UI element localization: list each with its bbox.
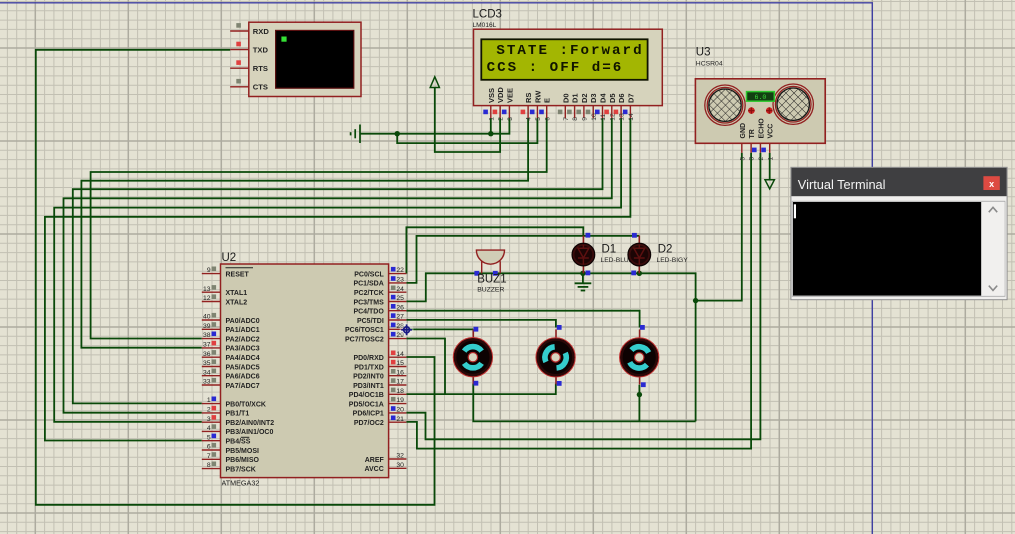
svg-text:STATE :Forward: STATE :Forward (496, 43, 643, 59)
wire net U2 PC6 to motor M1 + (406, 328, 473, 330)
svg-text:7: 7 (563, 117, 570, 121)
svg-text:D0: D0 (561, 93, 570, 103)
svg-text:PB7/SCK: PB7/SCK (226, 466, 256, 473)
svg-text:36: 36 (203, 351, 211, 358)
svg-text:Virtual Terminal: Virtual Terminal (798, 177, 886, 192)
svg-text:D7: D7 (626, 93, 635, 103)
svg-text:PD2/INT0: PD2/INT0 (353, 374, 384, 381)
U3 pin stubs (742, 143, 770, 153)
svg-text:30: 30 (396, 462, 404, 469)
svg-text:2: 2 (498, 117, 505, 121)
svg-text:33: 33 (203, 379, 211, 386)
junction dot motor3 bottom (637, 392, 642, 397)
svg-text:9: 9 (582, 117, 589, 121)
svg-text:D5: D5 (608, 93, 617, 103)
svg-text:6.0: 6.0 (754, 94, 766, 101)
svg-text:16: 16 (396, 369, 404, 376)
svg-text:8: 8 (572, 117, 579, 121)
wire net LCD-D7 to U2 PB4 (45, 118, 631, 441)
svg-text:19: 19 (396, 397, 404, 404)
svg-text:22: 22 (396, 267, 404, 274)
wire branch GND net to LCD RW pin5 (397, 118, 537, 143)
svg-text:1: 1 (767, 157, 774, 161)
U2 pin name labels (226, 271, 385, 473)
svg-text:13: 13 (203, 286, 211, 293)
svg-text:6: 6 (207, 444, 211, 451)
wire net LCD-D6 to U2 PB2 (54, 118, 621, 422)
svg-text:25: 25 (396, 295, 404, 302)
svg-text:39: 39 (203, 323, 211, 330)
svg-text:12: 12 (609, 113, 616, 121)
svg-text:PA1/ADC1: PA1/ADC1 (226, 327, 260, 334)
svg-text:3: 3 (207, 416, 211, 423)
svg-text:AVCC: AVCC (364, 466, 383, 473)
U2 pin numbers (203, 267, 404, 469)
U3 pin name labels (740, 118, 775, 139)
svg-text:RXD: RXD (253, 27, 270, 36)
svg-text:CTS: CTS (253, 83, 268, 92)
svg-text:VSS: VSS (487, 88, 496, 103)
U2 PB4/SS overline (241, 436, 250, 438)
svg-text:PB2/AIN0/INT2: PB2/AIN0/INT2 (226, 420, 275, 427)
wire net U2 PC7 / PD4 to motor M2 - (406, 339, 555, 395)
ground symbol near LCD (rotated) (351, 125, 360, 144)
svg-text:3: 3 (749, 157, 756, 161)
svg-text:PB4/SS: PB4/SS (226, 439, 251, 446)
svg-text:PB1/T1: PB1/T1 (226, 411, 250, 418)
wire net GND rail : U2 PC3, LED cathodes, buzzer, sensor GND (406, 273, 695, 421)
svg-text:5: 5 (207, 434, 211, 441)
U3 indicator LED at 769.3 (766, 107, 773, 114)
svg-text:17: 17 (396, 379, 404, 386)
svg-text:13: 13 (619, 113, 626, 121)
LED D1 (572, 236, 634, 274)
U2 left pin stubs (202, 274, 221, 469)
svg-text:14: 14 (396, 351, 404, 358)
VT scrollbar (981, 202, 1004, 296)
svg-text:D1: D1 (602, 244, 617, 256)
svg-text:20: 20 (396, 407, 404, 414)
svg-text:PA2/ADC2: PA2/ADC2 (226, 336, 260, 343)
svg-text:x: x (989, 179, 994, 189)
svg-text:14: 14 (628, 113, 635, 121)
svg-text:TR: TR (749, 129, 756, 138)
svg-text:PA5/ADC5: PA5/ADC5 (226, 364, 260, 371)
junction dot gnd rail corner (693, 298, 698, 303)
svg-text:15: 15 (396, 360, 404, 367)
svg-text:HCSR04: HCSR04 (696, 61, 723, 68)
wire net U2 PD6 to U3 ECHO (406, 153, 760, 440)
svg-text:4: 4 (526, 117, 533, 121)
svg-text:U2: U2 (222, 252, 237, 264)
svg-text:1: 1 (207, 397, 211, 404)
svg-text:PB6/MISO: PB6/MISO (226, 457, 260, 464)
ground symbol below LED D1 (575, 283, 592, 290)
svg-text:35: 35 (203, 360, 211, 367)
motor M3 (620, 329, 659, 384)
svg-text:PC2/TCK: PC2/TCK (354, 290, 384, 297)
svg-text:VDD: VDD (496, 87, 505, 103)
U3 pin state squares (752, 148, 757, 153)
svg-text:RW: RW (533, 90, 542, 103)
svg-text:BUZZER: BUZZER (477, 287, 504, 294)
wire branch LCD VSS pin1 to GND net (490, 118, 492, 134)
svg-text:PA3/ADC3: PA3/ADC3 (226, 346, 260, 353)
U3 transducer at 793 (773, 84, 813, 124)
svg-text:ECHO: ECHO (758, 118, 765, 139)
junction dot gnd-lcd B (488, 131, 493, 136)
wire branch U2 PD4 (406, 393, 445, 395)
svg-text:PC6/TOSC1: PC6/TOSC1 (345, 327, 384, 334)
junction dot D2 cathode (637, 271, 642, 276)
motor pin state squares (474, 327, 479, 332)
svg-text:GND: GND (740, 123, 747, 139)
virtual terminal component VT (RXD/TXD/RTS/CTS) (230, 22, 361, 96)
svg-text:PC3/TMS: PC3/TMS (353, 299, 384, 306)
svg-text:PA0/ADC0: PA0/ADC0 (226, 318, 260, 325)
U3 transducer at 725 (705, 85, 745, 125)
motor M2 (536, 329, 575, 384)
VT terminal screen (792, 201, 1005, 296)
U3 distance display 6.0 (747, 92, 775, 102)
svg-text:26: 26 (396, 304, 404, 311)
svg-text:RESET: RESET (226, 271, 250, 278)
U2 RESET overline (226, 267, 254, 269)
svg-text:PD0/RXD: PD0/RXD (353, 355, 383, 362)
power symbol (down arrow) at U3 VCC (765, 180, 774, 189)
svg-text:11: 11 (600, 114, 607, 121)
svg-text:PC1/SDA: PC1/SDA (353, 281, 383, 288)
svg-text:27: 27 (396, 314, 404, 321)
svg-text:PC0/SCL: PC0/SCL (354, 271, 384, 278)
wire net U2 PC1 to LED D2 anode (406, 236, 639, 283)
svg-text:BUZ1: BUZ1 (477, 274, 506, 286)
svg-text:XTAL2: XTAL2 (226, 299, 248, 306)
ultrasonic sensor U3 HCSR04 (695, 47, 825, 161)
svg-text:PD7/OC2: PD7/OC2 (354, 420, 384, 427)
svg-text:4: 4 (207, 425, 211, 432)
svg-text:2: 2 (207, 407, 211, 414)
U3 pin numbers (739, 157, 774, 161)
svg-text:E: E (543, 98, 552, 103)
VT close button (983, 176, 999, 190)
svg-text:D4: D4 (599, 93, 608, 103)
svg-text:D1: D1 (571, 93, 580, 103)
svg-text:PB3/AIN1/OC0: PB3/AIN1/OC0 (226, 429, 274, 436)
Virtual Terminal popup window (791, 167, 1007, 299)
svg-text:PD5/OC1A: PD5/OC1A (349, 401, 384, 408)
svg-text:PD3/INT1: PD3/INT1 (353, 383, 384, 390)
wire GND rail to U3 GND pin (696, 153, 742, 301)
svg-text:D2: D2 (580, 93, 589, 103)
wire net LCD-E to U2 PA2 (91, 118, 547, 339)
svg-text:5: 5 (739, 157, 746, 161)
microcontroller U2 ATMEGA32 (202, 252, 407, 488)
wire net LCD-D4 to U2 PB0 (73, 118, 603, 403)
svg-text:40: 40 (203, 314, 211, 321)
power symbol (up arrow) at LCD VDD (430, 77, 439, 88)
LCD pin name labels (487, 87, 636, 103)
svg-text:18: 18 (396, 388, 404, 395)
wire net VDD : power arrow to LCD VDD pin2 (435, 88, 500, 153)
svg-text:PC4/TDO: PC4/TDO (353, 309, 384, 316)
junction dot gnd-lcd A (395, 131, 400, 136)
wire net U2 PC4 to motor M3 + (406, 311, 639, 328)
LED D2 (628, 236, 688, 274)
LCD display LCD3 LM016L (473, 9, 663, 121)
svg-text:2: 2 (758, 157, 765, 161)
LED pin state squares (586, 233, 591, 238)
svg-text:LCD3: LCD3 (473, 9, 502, 21)
U2 right pin stubs (389, 274, 407, 469)
svg-text:10: 10 (591, 113, 598, 121)
svg-text:RTS: RTS (253, 64, 268, 73)
wire U3 VCC pin to power arrow (769, 153, 771, 180)
wire net U2 PD7 to U3 TR (406, 153, 751, 449)
svg-text:PB0/T0/XCK: PB0/T0/XCK (226, 401, 266, 408)
svg-text:6: 6 (544, 117, 551, 121)
svg-text:3: 3 (507, 117, 514, 121)
svg-text:5: 5 (535, 117, 542, 121)
svg-text:D6: D6 (617, 93, 626, 103)
svg-text:24: 24 (396, 286, 404, 293)
wire net TERM-TXD to U2 PD0/RXD (36, 50, 435, 505)
svg-text:VCC: VCC (768, 124, 775, 139)
wire motor bottom rail M1- M3- to GND rail (473, 383, 695, 421)
LCD pin state squares (483, 110, 488, 115)
svg-text:LED-BIGY: LED-BIGY (657, 257, 689, 264)
wire net LCD-RS to U2 PA3 (81, 118, 528, 348)
mouse cursor crosshair (400, 323, 414, 337)
svg-text:PD6/ICP1: PD6/ICP1 (353, 411, 384, 418)
svg-text:D2: D2 (658, 244, 673, 256)
LCD pin numbers 1-14 (488, 113, 635, 121)
junction dot D1 cathode (580, 271, 585, 276)
svg-text:PB5/MOSI: PB5/MOSI (226, 448, 260, 455)
wire net U2 PC5 to motor M2 + (406, 320, 556, 328)
svg-text:PD1/TXD: PD1/TXD (354, 364, 384, 371)
svg-text:VEE: VEE (505, 88, 514, 103)
svg-text:37: 37 (203, 342, 211, 349)
svg-text:9: 9 (207, 267, 211, 274)
svg-text:23: 23 (396, 277, 404, 284)
svg-text:PA6/ADC6: PA6/ADC6 (226, 374, 260, 381)
svg-text:PA7/ADC7: PA7/ADC7 (226, 383, 260, 390)
svg-text:AREF: AREF (365, 457, 385, 464)
wire net U2 PC0 to LED D1 anode (406, 227, 583, 273)
svg-text:TXD: TXD (253, 45, 269, 54)
svg-text:8: 8 (207, 462, 211, 469)
svg-text:7: 7 (207, 453, 211, 460)
svg-text:34: 34 (203, 369, 211, 376)
svg-text:21: 21 (396, 416, 404, 423)
svg-text:1: 1 (488, 117, 495, 121)
svg-text:PC7/TOSC2: PC7/TOSC2 (345, 336, 384, 343)
svg-text:ATMEGA32: ATMEGA32 (222, 479, 260, 488)
VT text cursor (794, 204, 796, 218)
svg-text:RS: RS (524, 93, 533, 103)
svg-text:32: 32 (396, 453, 404, 460)
svg-text:PA4/ADC4: PA4/ADC4 (226, 355, 260, 362)
svg-text:XTAL1: XTAL1 (226, 290, 248, 297)
svg-text:U3: U3 (696, 47, 711, 59)
wire LED D1 cathode to ground symbol (582, 273, 584, 283)
svg-text:PC5/TDI: PC5/TDI (357, 318, 384, 325)
motor M1 (453, 329, 492, 384)
buzzer BUZ1 (474, 250, 506, 293)
svg-text:D3: D3 (589, 93, 598, 103)
svg-text:CCS : OFF d=6: CCS : OFF d=6 (487, 60, 624, 76)
wire net LCD-D5 to U2 PB1 (64, 118, 612, 413)
wire motor M3 - to bottom rail (638, 385, 640, 422)
U2 pin state squares (212, 267, 217, 272)
svg-text:38: 38 (203, 332, 211, 339)
wire net GND-LCD : ground to LCD VSS/VEE (360, 118, 509, 134)
svg-text:12: 12 (203, 295, 211, 302)
U3 indicator LED at 751.4 (748, 107, 755, 114)
svg-text:LM016L: LM016L (473, 22, 497, 29)
svg-text:PD4/OC1B: PD4/OC1B (349, 392, 384, 399)
